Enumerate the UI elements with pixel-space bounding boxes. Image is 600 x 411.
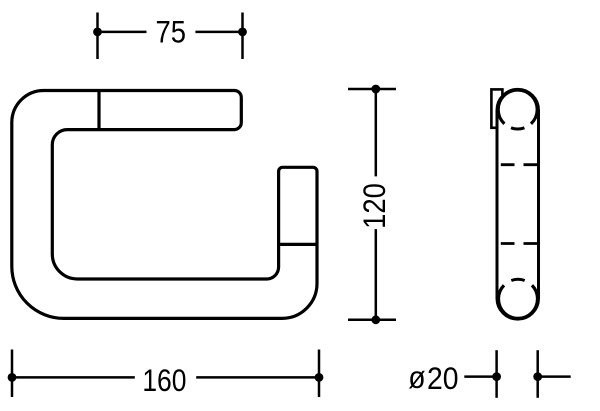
dim diameter 20 left tick — [495, 350, 498, 398]
front view outline — [12, 91, 317, 319]
side view wall bracket — [491, 89, 502, 127]
dim 160 left dot — [8, 373, 17, 382]
junction line on right post — [279, 243, 317, 246]
dim 120 bottom tick — [348, 319, 396, 322]
side view top circle solid arc — [498, 90, 537, 124]
dim 160 right tick — [318, 350, 321, 398]
svg-text:ø: ø — [408, 361, 425, 396]
svg-text:120: 120 — [357, 183, 392, 229]
dim 120 line — [375, 89, 378, 320]
dim 120 top dot — [371, 85, 380, 94]
dim 75 right dot — [238, 28, 247, 37]
dim 75 line — [98, 31, 243, 34]
dim 160 line — [12, 376, 319, 379]
svg-text:75: 75 — [155, 15, 185, 50]
side view bottom circle hidden dash — [511, 279, 524, 280]
svg-text:20: 20 — [427, 362, 459, 397]
dim diameter 20 left dot — [492, 372, 501, 381]
dim 120 top tick — [348, 88, 396, 91]
dim diameter 20 right line — [538, 375, 571, 378]
side view top circle hidden dash — [511, 128, 524, 129]
dim 160 left tick — [11, 350, 14, 398]
side view bottom circle solid arc — [499, 285, 538, 318]
side view upper hidden line — [501, 163, 537, 166]
weld divider line on top bar — [97, 91, 100, 130]
dim 75 right tick — [241, 13, 244, 60]
dim 120 bottom dot — [371, 315, 380, 324]
dim 75 left dot — [93, 28, 102, 37]
side view capsule body — [497, 89, 539, 319]
dim 75 left tick — [96, 13, 99, 60]
dim diameter 20 right dot — [533, 372, 542, 381]
dim diameter 20 right tick — [536, 350, 539, 398]
dim 160 right dot — [315, 373, 324, 382]
svg-text:160: 160 — [142, 364, 186, 399]
dim diameter 20 left line — [464, 375, 496, 378]
side view lower hidden line — [501, 242, 537, 245]
